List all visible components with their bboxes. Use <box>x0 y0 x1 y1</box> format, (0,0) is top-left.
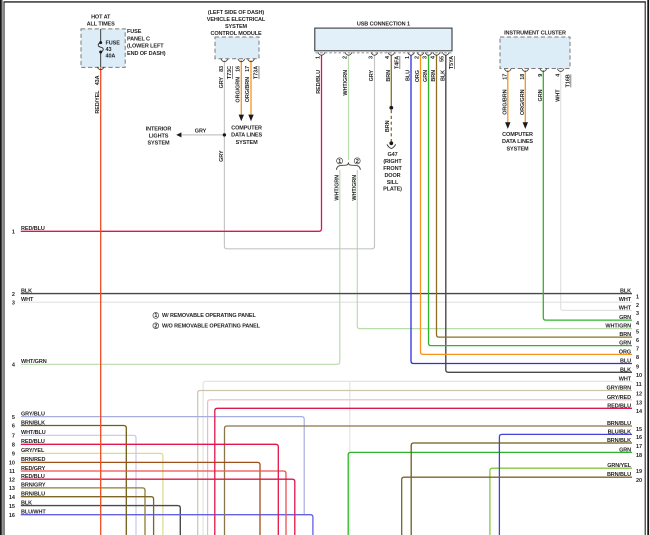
wire WHT/GRN branch 1 to row L4 <box>21 170 340 364</box>
svg-text:GRY: GRY <box>219 150 225 162</box>
svg-text:2: 2 <box>414 56 420 59</box>
diagram border top <box>4 1 646 3</box>
svg-text:ORG/BRN: ORG/BRN <box>503 89 509 114</box>
svg-text:GRN: GRN <box>538 89 544 101</box>
svg-text:BRN/GRY: BRN/GRY <box>21 483 46 489</box>
svg-text:FUSE: FUSE <box>127 29 142 35</box>
svg-text:WHT: WHT <box>555 89 561 102</box>
svg-text:5: 5 <box>636 329 639 335</box>
svg-text:9: 9 <box>538 74 544 77</box>
svg-text:14: 14 <box>9 495 16 501</box>
svg-text:12: 12 <box>636 391 642 397</box>
svg-text:GRN: GRN <box>423 70 429 82</box>
dashed pin strip under USB box <box>316 52 452 54</box>
svg-text:WHT/GRN: WHT/GRN <box>335 175 341 201</box>
svg-text:USB CONNECTION 1: USB CONNECTION 1 <box>357 21 410 27</box>
svg-text:WHT/GRN: WHT/GRN <box>343 70 349 96</box>
svg-text:COMPUTER: COMPUTER <box>502 132 533 138</box>
svg-text:BLU/BLK: BLU/BLK <box>608 429 632 435</box>
left edge row numbers <box>9 230 16 519</box>
svg-text:8: 8 <box>636 355 639 361</box>
wire BRN/GRY row L13 <box>21 488 145 535</box>
svg-text:SYSTEM: SYSTEM <box>147 140 170 146</box>
svg-text:ALL TIMES: ALL TIMES <box>87 22 115 28</box>
svg-text:1: 1 <box>405 56 411 59</box>
svg-text:7: 7 <box>12 434 15 440</box>
wire GRY/YEL row L9 <box>21 453 163 535</box>
splice brace of WHT/GRN branches <box>336 162 360 169</box>
svg-text:BLK: BLK <box>620 289 631 295</box>
svg-text:GRY/BLU: GRY/BLU <box>21 411 45 417</box>
svg-text:18: 18 <box>520 74 526 80</box>
G47 ground: upper splice dot <box>389 106 393 110</box>
arrow down ORG/BRN control module pin 17 <box>248 115 253 122</box>
wire WHT row R11 <box>203 381 632 535</box>
svg-text:6: 6 <box>636 338 639 344</box>
svg-text:SYSTEM: SYSTEM <box>236 140 259 146</box>
svg-text:BRN: BRN <box>619 332 631 338</box>
wire GRN/YEL row R19 <box>490 468 632 535</box>
wire RED/YEL from fuse 43 down entire page <box>100 68 102 535</box>
svg-text:4: 4 <box>636 321 640 327</box>
G47 ground: lower dot and ground symbol <box>389 141 393 145</box>
svg-text:BRN: BRN <box>385 120 391 132</box>
svg-text:INTERIOR: INTERIOR <box>146 127 172 133</box>
svg-text:SYSTEM: SYSTEM <box>225 24 248 30</box>
left edge wire labels <box>21 226 47 515</box>
svg-text:1: 1 <box>315 56 321 59</box>
wire RED/BLU row L12 <box>21 479 295 535</box>
svg-text:BRN/RED: BRN/RED <box>21 457 45 463</box>
svg-text:BLK: BLK <box>441 70 447 81</box>
svg-text:(RIGHT: (RIGHT <box>383 159 402 165</box>
svg-text:GRY: GRY <box>195 128 207 134</box>
svg-text:2: 2 <box>636 303 639 309</box>
page edge outer left bar <box>0 0 2 535</box>
svg-text:PANEL C: PANEL C <box>127 36 150 42</box>
svg-text:14: 14 <box>636 409 643 415</box>
wire GRY/RED row R13 <box>208 400 632 535</box>
svg-text:LIGHTS: LIGHTS <box>149 134 169 140</box>
svg-text:PLATE): PLATE) <box>383 187 402 193</box>
wire WHT row L3/R2 <box>21 301 632 303</box>
svg-text:(LEFT SIDE OF DASH): (LEFT SIDE OF DASH) <box>208 10 264 16</box>
svg-text:END OF DASH): END OF DASH) <box>127 51 166 57</box>
svg-text:2: 2 <box>12 292 15 298</box>
svg-text:BRN/BLU: BRN/BLU <box>21 492 45 498</box>
svg-text:43: 43 <box>106 47 112 53</box>
wire RED/BLU row R14 <box>215 408 632 535</box>
fuse panel C box <box>81 29 125 68</box>
svg-text:13: 13 <box>9 486 15 492</box>
arrow down ORG/GRN instrument cluster pin 18 <box>523 122 528 129</box>
wire WHT/GRN pigtail from USB pin 2 <box>348 55 350 160</box>
wire RED/BLU row L1 from USB pin 1 <box>21 55 322 231</box>
wire BLK row L2/R1 <box>21 293 632 295</box>
wire RED/BLU row L8 <box>21 444 279 535</box>
wire WHT vertical joining row R11 <box>349 381 351 535</box>
svg-text:16: 16 <box>9 513 15 519</box>
svg-text:BLU: BLU <box>620 359 631 365</box>
svg-text:VEHICLE ELECTRICAL: VEHICLE ELECTRICAL <box>207 17 266 23</box>
control module box (vehicle electrical system control module) <box>215 37 259 59</box>
wire BRN/BLU row R15 <box>225 426 633 535</box>
svg-text:1: 1 <box>154 313 157 319</box>
svg-text:2: 2 <box>342 56 348 59</box>
wire WHT/GRN branch 2 to row R5 <box>357 170 632 329</box>
svg-text:RED/BLU: RED/BLU <box>316 70 322 94</box>
svg-text:BLK: BLK <box>21 288 32 294</box>
right edge wire labels <box>605 289 631 479</box>
svg-text:15: 15 <box>9 504 15 510</box>
svg-text:CONTROL MODULE: CONTROL MODULE <box>210 31 261 37</box>
circled 1 at branch 1 <box>337 158 343 164</box>
legend circled 2 <box>153 323 159 329</box>
svg-text:WHT/GRN: WHT/GRN <box>605 324 631 330</box>
svg-text:GRY/YEL: GRY/YEL <box>21 448 45 454</box>
svg-text:RED/YEL: RED/YEL <box>95 90 101 114</box>
svg-text:RED/BLU: RED/BLU <box>607 403 631 409</box>
svg-text:11: 11 <box>9 469 15 475</box>
svg-text:BLU: BLU <box>406 70 412 81</box>
svg-text:WHT: WHT <box>21 297 34 303</box>
svg-text:ORG: ORG <box>619 349 631 355</box>
svg-text:T4FA: T4FA <box>395 56 401 69</box>
wire BRN/BLK row L6 <box>21 426 127 535</box>
svg-text:1: 1 <box>12 230 15 236</box>
svg-text:G47: G47 <box>387 152 397 158</box>
svg-text:WHT: WHT <box>619 376 632 382</box>
svg-text:RED/BLU: RED/BLU <box>21 439 45 445</box>
wire WHT row R3 from instrument cluster pin 4 <box>561 70 632 310</box>
svg-text:10: 10 <box>636 373 642 379</box>
svg-text:9: 9 <box>636 364 639 370</box>
svg-text:BLK: BLK <box>21 500 32 506</box>
diagram border left <box>3 1 5 535</box>
svg-text:BRN/BLK: BRN/BLK <box>607 438 631 444</box>
pin cup below fuse box <box>97 67 104 70</box>
USB connection 1 box <box>315 28 452 51</box>
svg-text:T73A: T73A <box>254 66 260 79</box>
svg-text:83: 83 <box>219 66 225 72</box>
wire ORG/BRN from instrument cluster pin 17 <box>507 70 509 122</box>
svg-text:40A: 40A <box>106 53 116 59</box>
svg-text:GRY: GRY <box>219 77 225 89</box>
wire BRN from USB pin 4 to G47 ground <box>390 55 392 107</box>
svg-text:COMPUTER: COMPUTER <box>231 125 262 131</box>
svg-text:3: 3 <box>368 56 374 59</box>
svg-text:SYSTEM: SYSTEM <box>506 146 529 152</box>
svg-text:BRN/BLU: BRN/BLU <box>607 472 631 478</box>
svg-text:HOT AT: HOT AT <box>91 14 111 20</box>
svg-text:WHT/GRN: WHT/GRN <box>352 175 358 201</box>
svg-text:3: 3 <box>422 56 428 59</box>
svg-text:T5YA: T5YA <box>449 56 455 69</box>
arrow left to interior lights system <box>176 132 181 137</box>
svg-text:ORG: ORG <box>415 70 421 82</box>
svg-text:BRN/BLU: BRN/BLU <box>607 421 631 427</box>
svg-text:1: 1 <box>338 159 341 165</box>
svg-text:BLK: BLK <box>620 367 631 373</box>
svg-text:3: 3 <box>636 311 639 317</box>
svg-text:3: 3 <box>12 300 15 306</box>
svg-text:4: 4 <box>385 55 391 59</box>
svg-text:17: 17 <box>503 74 509 80</box>
svg-text:11: 11 <box>636 382 642 388</box>
svg-text:WHT/BLU: WHT/BLU <box>21 430 46 436</box>
wire WHT/BLU row L7 <box>21 435 136 535</box>
svg-text:ORG/BRN: ORG/BRN <box>245 77 251 102</box>
page edge inner left gray <box>2 0 4 535</box>
svg-text:RED/BLU: RED/BLU <box>21 474 45 480</box>
wire BLU row R9 from USB pin 1b <box>411 55 632 363</box>
svg-text:2: 2 <box>356 159 359 165</box>
svg-text:GRN/YEL: GRN/YEL <box>607 463 631 469</box>
pin cups below control module <box>221 59 254 62</box>
pin cups below USB box <box>318 52 449 55</box>
svg-text:SILL: SILL <box>387 180 399 186</box>
instrument cluster box <box>500 37 570 69</box>
wire GRY net: USB pin 3 down, left, up to control module junction <box>224 55 374 249</box>
wire RED/GRY row L11 <box>21 471 286 535</box>
svg-text:20: 20 <box>636 478 642 484</box>
svg-text:BRN: BRN <box>431 70 437 82</box>
legend circled 1 <box>153 313 159 319</box>
svg-text:8: 8 <box>12 443 15 449</box>
svg-text:4: 4 <box>430 55 436 59</box>
svg-text:6: 6 <box>12 424 15 430</box>
svg-text:55: 55 <box>440 56 446 62</box>
svg-text:ORG/GRN: ORG/GRN <box>236 77 242 103</box>
svg-text:GRN: GRN <box>619 315 631 321</box>
wire BLU/WHT row L16 <box>21 515 313 535</box>
wire GRN row R4 from instrument cluster pin 9 <box>543 70 632 320</box>
svg-text:INSTRUMENT CLUSTER: INSTRUMENT CLUSTER <box>504 31 566 37</box>
svg-text:16: 16 <box>236 66 242 72</box>
svg-text:17: 17 <box>245 66 251 72</box>
svg-text:ORG/GRN: ORG/GRN <box>520 89 526 115</box>
pin cups below instrument cluster <box>504 69 564 72</box>
svg-text:GRN: GRN <box>619 341 631 347</box>
wire GRN row R18 <box>348 452 632 535</box>
svg-text:WHT: WHT <box>619 305 632 311</box>
svg-text:BRN/BLK: BRN/BLK <box>21 420 45 426</box>
wire BRN/BLU row L14 <box>21 497 154 535</box>
wire BRN/RED row L10 <box>21 462 260 535</box>
svg-text:18: 18 <box>636 453 642 459</box>
circled 2 at branch 2 <box>354 158 360 164</box>
wire GRY stub to interior lights arrow <box>179 134 225 136</box>
svg-text:13: 13 <box>636 401 642 407</box>
svg-text:T73C: T73C <box>227 66 233 79</box>
svg-text:7: 7 <box>636 346 639 352</box>
svg-text:FUSE: FUSE <box>106 40 121 46</box>
wire BRN/BLU row R20 <box>402 477 632 535</box>
svg-text:DOOR: DOOR <box>384 173 400 179</box>
svg-text:GRY: GRY <box>369 70 375 82</box>
wire BLK row L15 <box>21 506 181 535</box>
svg-text:10: 10 <box>9 461 15 467</box>
svg-text:GRY/RED: GRY/RED <box>607 395 631 401</box>
svg-text:FRONT: FRONT <box>383 166 402 172</box>
svg-text:9: 9 <box>12 452 15 458</box>
wire GRN row R7 from USB pin 3b <box>429 55 633 345</box>
svg-text:GRY/BRN: GRY/BRN <box>607 386 632 392</box>
svg-text:GRN: GRN <box>619 447 631 453</box>
fuse 43 symbol <box>98 29 103 68</box>
svg-text:2: 2 <box>154 323 157 329</box>
wire ORG row R8 from USB pin 2b <box>421 55 633 354</box>
wire BRN dashed ground segment <box>390 110 392 142</box>
svg-text:4: 4 <box>12 363 16 369</box>
wire BRN/BLK row R17 <box>411 443 632 535</box>
svg-text:5: 5 <box>12 415 15 421</box>
svg-text:WHT: WHT <box>619 297 632 303</box>
svg-text:DATA LINES: DATA LINES <box>502 139 533 145</box>
arrow down ORG/BRN instrument cluster pin 17 <box>505 122 510 129</box>
svg-text:BLU/WHT: BLU/WHT <box>21 510 46 516</box>
svg-text:RED/BLU: RED/BLU <box>21 226 45 232</box>
junction dot on GRY at interior lights branch <box>223 133 226 136</box>
wire BRN row R6 from USB pin 4b <box>437 55 633 337</box>
svg-text:43A: 43A <box>95 75 101 85</box>
arrow down ORG/GRN control module pin 16 <box>239 115 244 122</box>
right edge row numbers <box>636 294 643 484</box>
wire GRY/BRN row R12 <box>198 391 632 535</box>
svg-text:12: 12 <box>9 477 15 483</box>
svg-text:W/ REMOVABLE OPERATING PANEL: W/ REMOVABLE OPERATING PANEL <box>162 313 256 319</box>
svg-text:W/O REMOVABLE OPERATING PANEL: W/O REMOVABLE OPERATING PANEL <box>162 324 261 330</box>
wire BLK row R10 from USB pin 55 <box>446 55 632 372</box>
svg-text:1: 1 <box>636 294 639 300</box>
svg-text:15: 15 <box>636 427 642 433</box>
svg-text:RED/GRY: RED/GRY <box>21 466 46 472</box>
svg-text:17: 17 <box>636 444 642 450</box>
wire ORG/BRN from control module pin 17 <box>250 60 252 115</box>
wire GRY/BLU row L5 <box>21 417 304 515</box>
page edge outer right bar <box>647 0 649 535</box>
wire ORG/GRN from control module pin 16 <box>240 60 242 115</box>
svg-text:DATA LINES: DATA LINES <box>231 133 262 139</box>
svg-text:BRN: BRN <box>386 70 392 82</box>
diagram border right <box>644 1 646 535</box>
svg-text:WHT/GRN: WHT/GRN <box>21 359 47 365</box>
wire ORG/GRN from instrument cluster pin 18 <box>524 70 526 122</box>
svg-text:T16B: T16B <box>566 74 572 87</box>
wire BLU/BLK row R16 <box>499 434 632 535</box>
svg-text:(LOWER LEFT: (LOWER LEFT <box>127 44 164 50</box>
svg-text:16: 16 <box>636 435 642 441</box>
svg-text:19: 19 <box>636 469 642 475</box>
